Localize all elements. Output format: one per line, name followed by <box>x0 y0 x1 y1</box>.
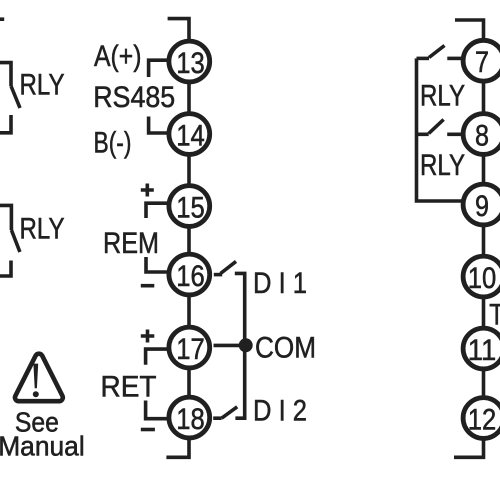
wire elbow above terminal 7 <box>455 20 484 40</box>
svg-text:RLY: RLY <box>420 149 465 182</box>
wire 14-15 <box>187 156 191 184</box>
wire 17-18 <box>187 369 191 396</box>
minus symbol below wire to 16 <box>141 284 155 288</box>
svg-text:T: T <box>489 299 500 332</box>
terminal 10 <box>463 256 500 297</box>
relay contact K2 lower lead <box>0 261 11 277</box>
svg-text:D I 2: D I 2 <box>253 394 307 427</box>
relay contact K2 blade <box>11 230 20 252</box>
wire cut-off lead at top-left edge <box>0 17 4 21</box>
minus symbol below wire to 18 <box>141 428 155 432</box>
svg-text:REM: REM <box>103 227 159 260</box>
wire 13-14 <box>187 83 191 112</box>
svg-text:7: 7 <box>475 46 489 79</box>
wire 11-12 <box>482 371 486 399</box>
svg-text:RLY: RLY <box>420 80 465 113</box>
DI2 switch stub from terminal 18 <box>213 416 221 420</box>
relay bus wire (right) <box>417 58 463 201</box>
terminal 9 <box>463 184 500 225</box>
svg-text:18: 18 <box>176 403 205 436</box>
relay switch to 8: right stub <box>447 133 463 137</box>
svg-text:D I 1: D I 1 <box>253 267 307 300</box>
DI1 switch blade <box>221 261 237 273</box>
svg-text:RET: RET <box>101 371 157 404</box>
terminal 17 <box>169 327 210 368</box>
svg-text:14: 14 <box>176 119 205 152</box>
warning triangle <box>15 354 63 402</box>
DI2 switch blade <box>222 407 238 418</box>
terminal 14 <box>169 114 210 155</box>
svg-text:13: 13 <box>176 47 205 80</box>
svg-text:17: 17 <box>176 333 205 366</box>
terminal 13 <box>169 41 210 82</box>
svg-text:15: 15 <box>176 191 205 224</box>
svg-text:11: 11 <box>468 334 497 367</box>
wire elbow above terminal 13 <box>168 19 189 40</box>
wire elbow below terminal 12 <box>454 440 484 457</box>
svg-text:10: 10 <box>468 262 497 295</box>
relay switch to 7: right stub <box>447 57 463 61</box>
warning exclamation dot <box>33 391 39 397</box>
svg-text:A(+): A(+) <box>94 40 142 73</box>
DI bracket wire <box>235 273 245 418</box>
svg-text:RLY: RLY <box>20 212 65 245</box>
wire 7-8 <box>482 83 486 114</box>
terminal 15 <box>169 186 210 227</box>
relay switch to 7: stub <box>417 57 430 61</box>
DI1 switch stub from terminal 16 <box>214 273 222 277</box>
svg-text:16: 16 <box>176 260 205 293</box>
terminal 18 <box>169 397 210 438</box>
relay switch to 8: stub <box>417 133 429 137</box>
svg-text:COM: COM <box>255 331 316 364</box>
plus symbol above wire to 17 <box>141 330 155 343</box>
wire to terminal 17 <box>146 349 168 365</box>
wire to terminal 16 <box>146 257 168 272</box>
svg-text:Manual: Manual <box>0 430 85 461</box>
relay switch to 7: blade <box>429 46 445 58</box>
wire 8-9 <box>482 156 486 185</box>
relay contact K1 upper lead <box>0 63 11 86</box>
wire to terminal 15 <box>146 203 168 218</box>
terminal 12 <box>463 398 500 439</box>
svg-text:9: 9 <box>475 190 489 223</box>
terminal 7 <box>463 40 500 81</box>
wire A(+) to terminal 13 <box>149 60 168 77</box>
wire 9-10 <box>482 227 486 257</box>
plus symbol above wire to 15 <box>141 184 154 197</box>
wire 16-17 <box>187 297 191 326</box>
svg-text:B(-): B(-) <box>94 127 132 160</box>
terminal 8 <box>463 114 500 155</box>
wire 15-16 <box>187 228 191 253</box>
relay switch to 8: blade <box>429 120 444 134</box>
relay contact K2 upper lead <box>0 205 11 230</box>
relay contact K1 lower lead <box>0 115 11 133</box>
svg-text:RS485: RS485 <box>93 81 175 114</box>
wire elbow below terminal 18 <box>166 440 189 458</box>
svg-text:RLY: RLY <box>20 69 65 102</box>
COM junction dot <box>239 338 253 352</box>
wire terminal 17 to COM junction <box>214 344 245 348</box>
terminal 16 <box>169 254 210 295</box>
relay contact K1 blade <box>11 86 20 108</box>
wire to terminal 18 <box>146 401 168 419</box>
terminal 11 <box>463 328 500 369</box>
wire B(-) to terminal 14 <box>149 117 168 134</box>
svg-text:8: 8 <box>475 119 489 152</box>
svg-text:12: 12 <box>468 403 497 436</box>
wire 10-11 <box>482 299 486 329</box>
warning exclamation bar <box>33 364 38 389</box>
